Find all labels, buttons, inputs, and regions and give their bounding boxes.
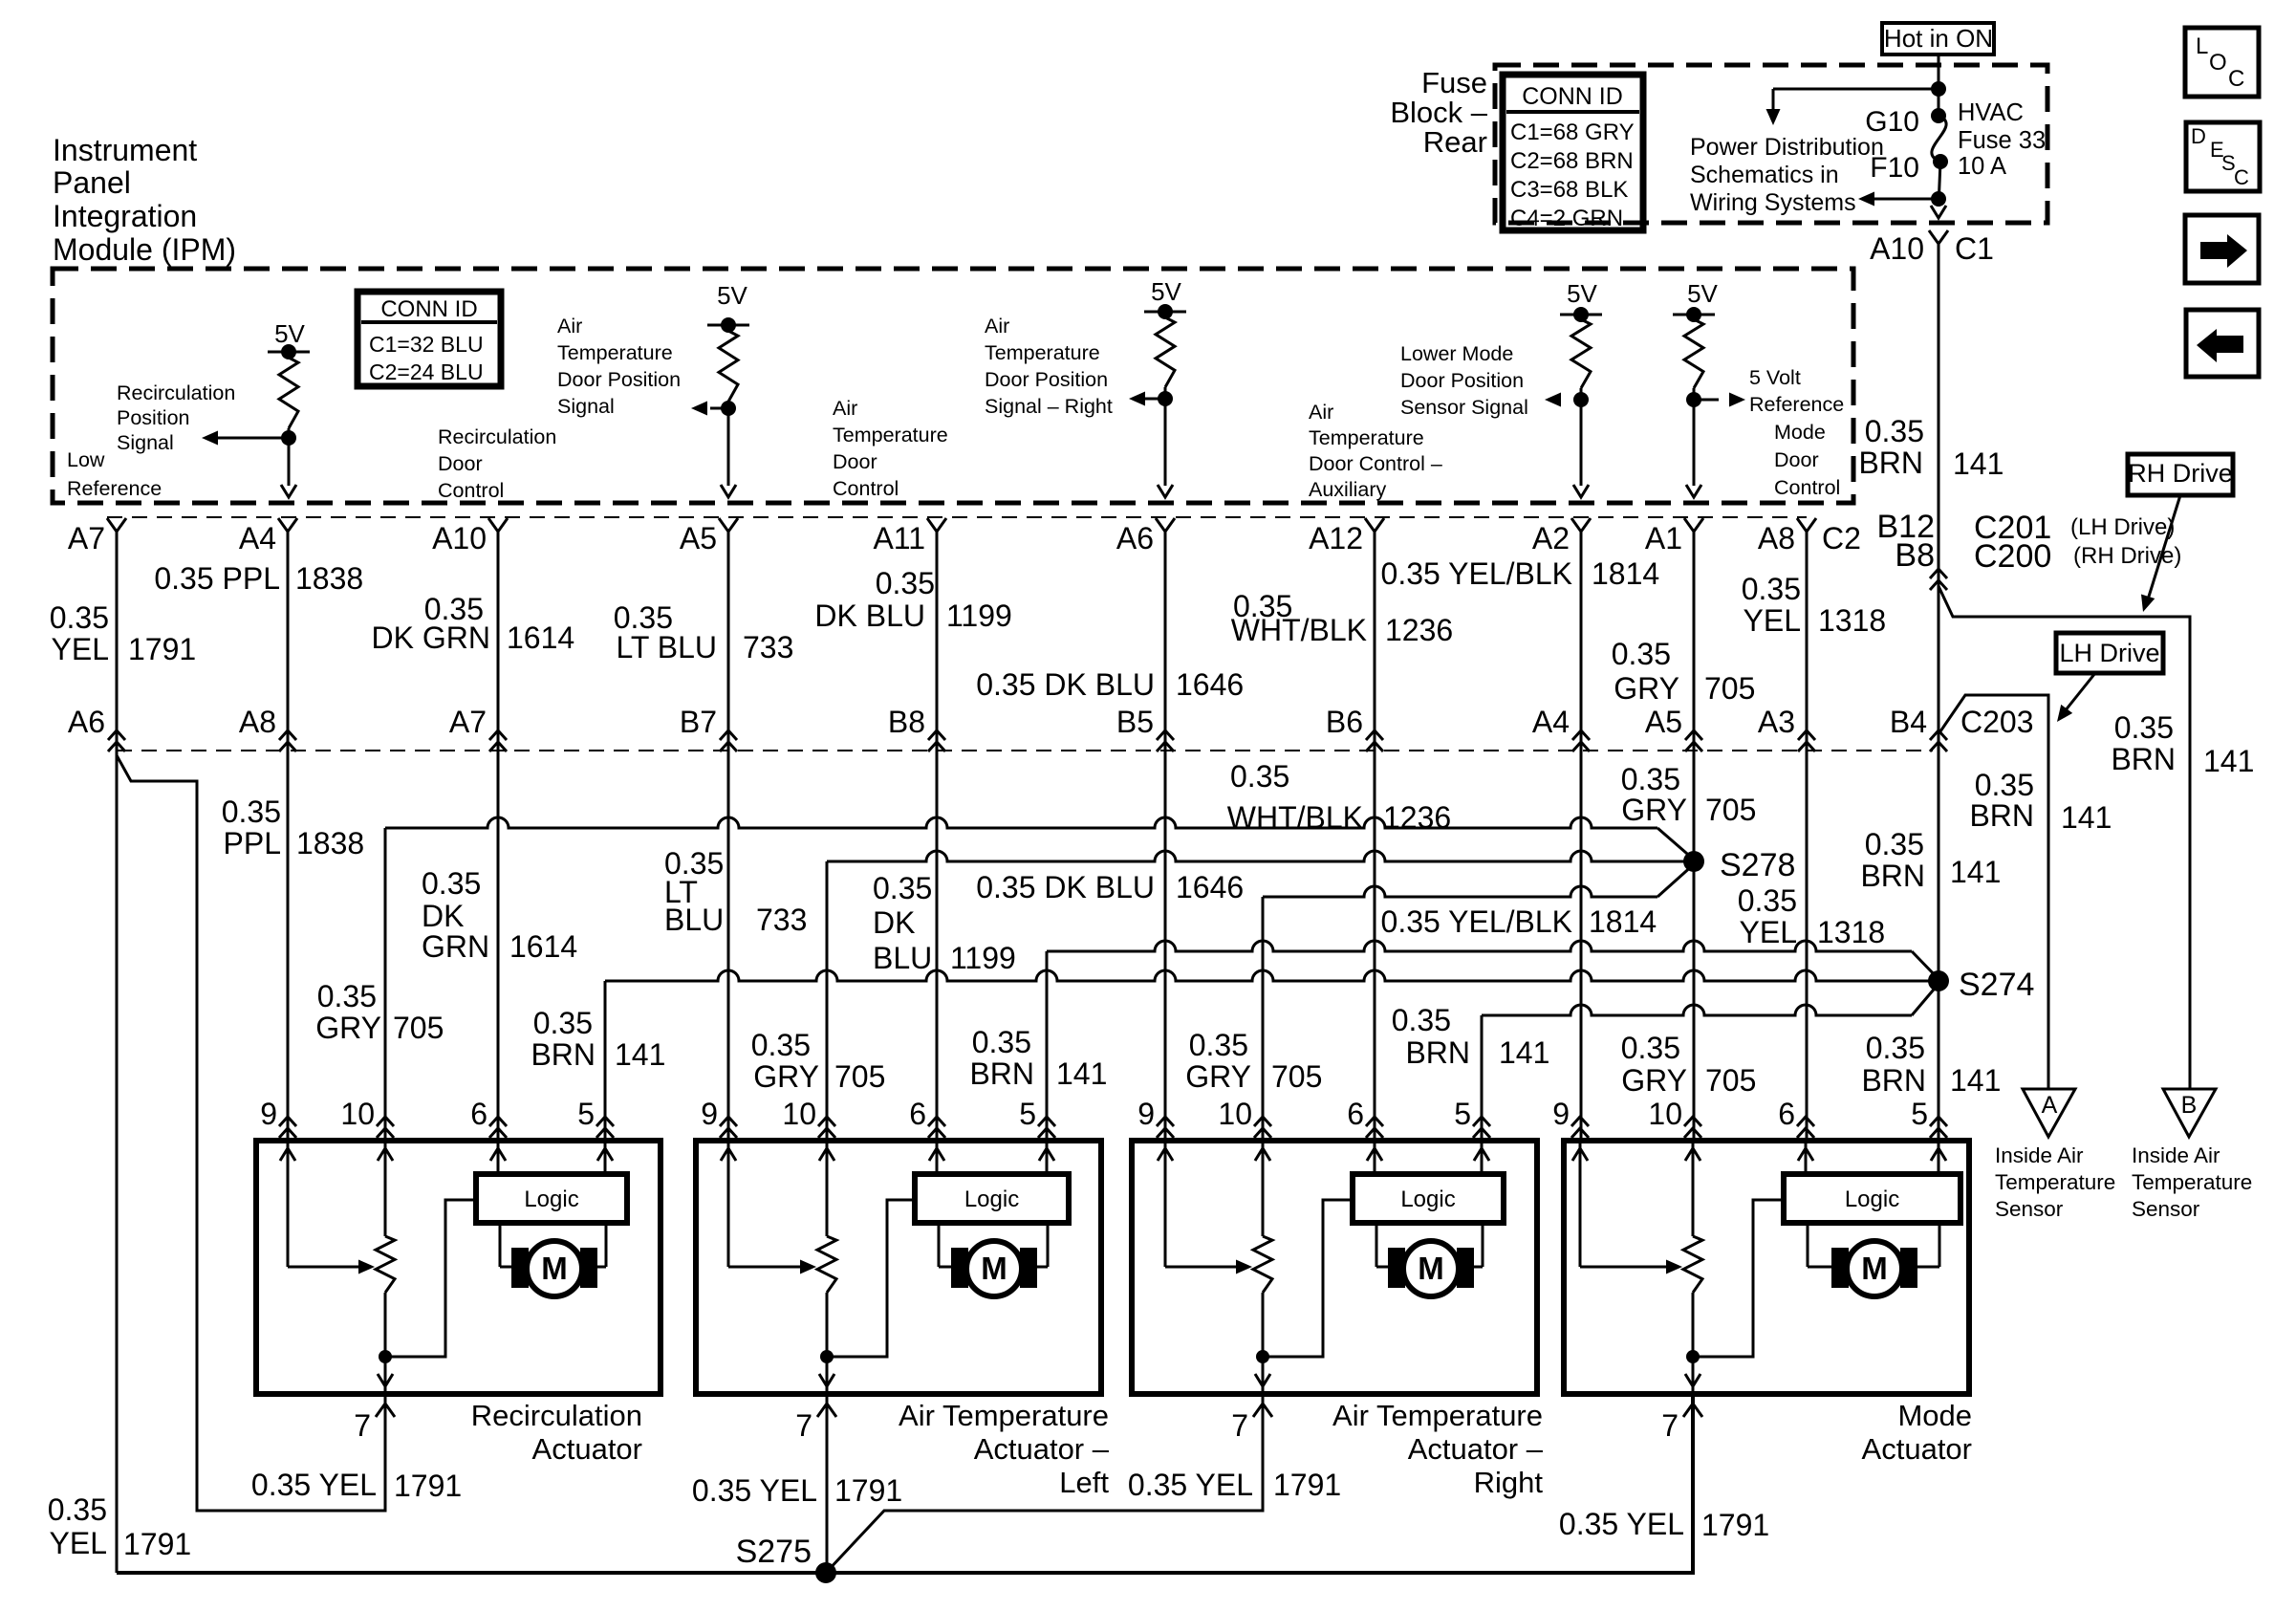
- splice S274: [1928, 970, 1949, 991]
- svg-text:Air Temperature: Air Temperature: [1332, 1399, 1543, 1432]
- branch arrow to Power Distribution: [1773, 88, 1939, 91]
- svg-text:A11: A11: [873, 521, 925, 555]
- svg-text:Rear: Rear: [1423, 125, 1487, 159]
- svg-text:A5: A5: [680, 521, 717, 555]
- svg-text:C200: C200: [1974, 538, 2051, 575]
- connector crossing pin 9: [279, 1117, 296, 1138]
- wire BRN 141 feeder to box3 pin5: [1482, 1005, 1912, 1015]
- svg-text:7: 7: [1661, 1408, 1679, 1443]
- svg-text:Door Position: Door Position: [557, 368, 681, 391]
- wire: battery feed from Hot in ON: [1938, 54, 1940, 116]
- svg-text:Signal – Right: Signal – Right: [985, 395, 1113, 418]
- svg-text:Mode: Mode: [1774, 421, 1826, 444]
- svg-text:BRN: BRN: [2111, 742, 2176, 776]
- signal arrow A5 air temp door position: [710, 407, 728, 410]
- connector dashed line top: [107, 516, 1807, 518]
- svg-text:DK BLU: DK BLU: [814, 599, 925, 633]
- svg-text:Sensor Signal: Sensor Signal: [1400, 396, 1528, 419]
- svg-text:C2=68 BRN: C2=68 BRN: [1510, 148, 1634, 174]
- Fuse Block dashed box: [1495, 65, 2047, 223]
- LOC box: [2185, 28, 2259, 97]
- svg-text:1646: 1646: [1176, 870, 1244, 904]
- svg-text:Temperature: Temperature: [833, 424, 948, 446]
- svg-text:Block –: Block –: [1390, 96, 1487, 129]
- svg-text:Temperature: Temperature: [985, 341, 1100, 364]
- svg-text:1791: 1791: [128, 632, 196, 666]
- logic block Air Temperature Actuator - Left: [915, 1174, 1069, 1223]
- svg-text:G10: G10: [1865, 106, 1919, 138]
- svg-text:6: 6: [1778, 1097, 1795, 1131]
- svg-text:Module (IPM): Module (IPM): [53, 232, 236, 267]
- svg-text:A10: A10: [432, 521, 487, 555]
- svg-text:705: 705: [393, 1011, 444, 1045]
- motor M Air Temperature Actuator - Left: [938, 1223, 941, 1267]
- connector crossing pin 5: [1038, 1117, 1055, 1138]
- wire GRY 705 drop to recirculation pin 10: [384, 828, 387, 1141]
- off-page triangle A: [2023, 1089, 2075, 1137]
- wire 0.35 YEL/BLK 1814: [1580, 532, 1583, 1141]
- RH Drive flag: [2128, 454, 2233, 495]
- svg-text:1614: 1614: [507, 620, 574, 655]
- svg-text:B5: B5: [1116, 705, 1154, 739]
- svg-text:BRN: BRN: [969, 1056, 1034, 1091]
- svg-text:YEL: YEL: [50, 1526, 107, 1560]
- svg-text:141: 141: [1950, 855, 2001, 889]
- wiper feed from pin 9 Air Temperature Actuator - Left: [727, 1141, 730, 1267]
- svg-text:S274: S274: [1959, 967, 2034, 1003]
- svg-text:7: 7: [795, 1408, 812, 1443]
- svg-text:Temperature: Temperature: [1995, 1170, 2115, 1194]
- collar A12: [1365, 518, 1384, 532]
- svg-text:1318: 1318: [1817, 915, 1885, 949]
- svg-text:0.35: 0.35: [48, 1492, 107, 1527]
- svg-text:Logic: Logic: [964, 1186, 1019, 1212]
- connector crossing pin 9: [1157, 1117, 1174, 1138]
- svg-text:705: 705: [1704, 671, 1755, 706]
- splice S278: [1683, 851, 1704, 872]
- connector crossing A5: [1685, 730, 1702, 751]
- svg-text:(LH Drive): (LH Drive): [2070, 514, 2175, 540]
- svg-text:0.35: 0.35: [876, 566, 935, 600]
- svg-text:C203: C203: [1960, 705, 2034, 739]
- wire A6 branch to recirculation pin 7 (0.35 YEL 1791): [117, 755, 385, 1511]
- wire 0.35 LT BLU 733: [727, 532, 730, 1141]
- svg-text:CONN ID: CONN ID: [1522, 83, 1623, 110]
- connector crossing A3: [1798, 730, 1815, 751]
- connector crossing pin 9: [1571, 1117, 1589, 1138]
- signal arrow A1 5 volt reference: [1694, 399, 1719, 402]
- wiper feed from pin 9 Recirculation Actuator: [287, 1141, 290, 1267]
- svg-text:1199: 1199: [950, 941, 1016, 975]
- svg-text:0.35: 0.35: [972, 1025, 1031, 1059]
- svg-text:0.35 YEL: 0.35 YEL: [1559, 1507, 1684, 1541]
- svg-text:A2: A2: [1532, 521, 1570, 555]
- svg-text:Actuator: Actuator: [532, 1432, 642, 1466]
- svg-text:Signal: Signal: [117, 431, 174, 454]
- svg-text:A6: A6: [68, 705, 105, 739]
- svg-text:0.35: 0.35: [751, 1028, 811, 1062]
- svg-text:0.35: 0.35: [317, 979, 377, 1013]
- svg-text:1791: 1791: [394, 1469, 462, 1503]
- svg-text:0.35: 0.35: [1865, 414, 1924, 448]
- connector crossing A8: [279, 730, 296, 751]
- svg-text:5: 5: [1911, 1097, 1928, 1131]
- svg-text:A4: A4: [1532, 705, 1570, 739]
- collar A5: [719, 518, 738, 532]
- svg-text:0.35 YEL/BLK: 0.35 YEL/BLK: [1381, 556, 1572, 591]
- svg-text:WHT/BLK: WHT/BLK: [1231, 613, 1367, 647]
- pin 7 exit Mode Actuator: [1683, 1404, 1702, 1417]
- connector crossing A6: [108, 730, 125, 751]
- connector crossing B6: [1366, 730, 1383, 751]
- internal arrow: [819, 1148, 834, 1161]
- svg-text:0.35: 0.35: [873, 871, 932, 905]
- svg-text:B8: B8: [888, 705, 925, 739]
- wire BRN 141 feeder to box2 pin5: [1047, 941, 1912, 951]
- svg-text:Schematics in: Schematics in: [1690, 162, 1839, 188]
- wire air temp left pin 7 to S275: [826, 1394, 829, 1573]
- wiper junction: [1686, 1350, 1700, 1363]
- pin 7 exit Air Temperature Actuator - Right: [1253, 1404, 1272, 1417]
- svg-text:141: 141: [615, 1037, 665, 1072]
- svg-text:Control: Control: [438, 479, 504, 502]
- wiper feed from pin 9 Mode Actuator: [1579, 1141, 1582, 1267]
- svg-text:9: 9: [1137, 1097, 1155, 1131]
- svg-text:5V: 5V: [717, 281, 747, 310]
- svg-text:O: O: [2209, 50, 2227, 76]
- svg-text:1791: 1791: [834, 1473, 902, 1508]
- svg-text:5: 5: [1019, 1097, 1036, 1131]
- connector crossing pin 6: [928, 1117, 945, 1138]
- svg-text:Reference: Reference: [1749, 393, 1844, 416]
- svg-text:5V: 5V: [1567, 279, 1597, 308]
- svg-text:5 Volt: 5 Volt: [1749, 366, 1801, 389]
- svg-text:Air: Air: [833, 397, 857, 420]
- svg-text:S275: S275: [736, 1534, 812, 1570]
- svg-text:5: 5: [1454, 1097, 1471, 1131]
- svg-text:1236: 1236: [1383, 800, 1451, 835]
- svg-text:A1: A1: [1645, 521, 1682, 555]
- svg-text:10: 10: [782, 1097, 816, 1131]
- svg-text:Air: Air: [1309, 401, 1333, 424]
- svg-text:LH Drive: LH Drive: [2059, 639, 2159, 667]
- svg-text:705: 705: [1271, 1059, 1322, 1094]
- svg-text:0.35 YEL/BLK: 0.35 YEL/BLK: [1381, 904, 1572, 939]
- svg-text:C1=68 GRY: C1=68 GRY: [1510, 120, 1635, 145]
- svg-text:0.35 YEL: 0.35 YEL: [1128, 1468, 1253, 1502]
- potentiometer (position feedback) Mode Actuator: [1692, 1141, 1695, 1236]
- svg-text:GRY: GRY: [1185, 1059, 1251, 1094]
- connector crossing pin 5: [1930, 1117, 1947, 1138]
- svg-text:1236: 1236: [1385, 613, 1453, 647]
- svg-text:0.35: 0.35: [1392, 1003, 1451, 1037]
- svg-text:Door: Door: [1774, 448, 1819, 471]
- svg-text:F10: F10: [1870, 152, 1919, 184]
- svg-text:PPL: PPL: [224, 826, 281, 860]
- internal arrow: [1158, 1148, 1173, 1161]
- pin 7 exit Air Temperature Actuator - Left: [817, 1404, 836, 1417]
- svg-text:C2: C2: [1822, 521, 1861, 555]
- wiper junction: [379, 1350, 392, 1363]
- svg-text:Air: Air: [985, 315, 1009, 337]
- IPM dashed box: [53, 269, 1853, 503]
- junction on battery feed: [1931, 81, 1946, 97]
- svg-text:Hot in ON: Hot in ON: [1884, 24, 1993, 53]
- svg-text:10: 10: [1218, 1097, 1252, 1131]
- svg-text:10 A: 10 A: [1958, 153, 2006, 180]
- svg-text:0.35: 0.35: [422, 866, 481, 901]
- connector crossing pin 10: [377, 1117, 394, 1138]
- svg-text:Temperature: Temperature: [1309, 426, 1424, 449]
- internal arrow: [1255, 1148, 1270, 1161]
- svg-text:733: 733: [756, 903, 807, 937]
- svg-text:Left: Left: [1059, 1466, 1109, 1499]
- svg-text:0.35 YEL: 0.35 YEL: [251, 1468, 377, 1502]
- actuator box: Air Temperature Actuator - Left: [696, 1141, 1101, 1394]
- svg-text:CONN ID: CONN ID: [380, 296, 477, 322]
- svg-text:1838: 1838: [296, 826, 364, 860]
- actuator box: Recirculation Actuator: [256, 1141, 661, 1394]
- wire 0.35 DK GRN 1614: [497, 532, 500, 1141]
- wiper sense to logic Air Temperature Actuator - Left: [827, 1200, 915, 1357]
- wire branch C203 LH drive to inside air temp sensor A: [1940, 695, 2048, 1089]
- svg-text:5: 5: [577, 1097, 595, 1131]
- svg-text:Temperature: Temperature: [2132, 1170, 2252, 1194]
- wire GRY 705 feeder to box3 pin10: [1263, 886, 1657, 897]
- wire GRY 705 drop to air temp left pin 10: [826, 861, 829, 1141]
- svg-text:0.35: 0.35: [1742, 572, 1801, 606]
- svg-text:GRY: GRY: [1621, 793, 1687, 827]
- wiper junction: [820, 1350, 834, 1363]
- signal arrow A2 lower mode door position: [1575, 399, 1581, 402]
- svg-text:0.35: 0.35: [533, 1006, 593, 1040]
- svg-text:7: 7: [354, 1408, 371, 1443]
- svg-text:A8: A8: [239, 705, 276, 739]
- internal arrow: [929, 1148, 944, 1161]
- internal arrow: [1685, 1148, 1700, 1161]
- connector crossing B4/C203: [1930, 730, 1947, 751]
- svg-text:BRN: BRN: [1405, 1035, 1470, 1070]
- previous-page arrow box: [2186, 310, 2259, 377]
- svg-text:0.35 DK BLU: 0.35 DK BLU: [976, 870, 1155, 904]
- svg-text:Sensor: Sensor: [2132, 1197, 2200, 1221]
- connector dashed line bottom: [117, 750, 1933, 751]
- wire 0.35 BRN 141 from fuse to IPM: [1938, 244, 1940, 517]
- wiper sense to logic Recirculation Actuator: [385, 1200, 476, 1357]
- wire below fuse with arrow to Wiring Systems: [1939, 162, 1940, 207]
- logic block Air Temperature Actuator - Right: [1353, 1174, 1504, 1223]
- internal arrow: [1039, 1148, 1054, 1161]
- connector crossing pin 5: [596, 1117, 614, 1138]
- svg-text:1646: 1646: [1176, 667, 1244, 702]
- collar A1: [1684, 518, 1703, 532]
- internal arrow: [490, 1148, 506, 1161]
- svg-text:LT BLU: LT BLU: [616, 630, 717, 664]
- svg-text:Right: Right: [1474, 1466, 1544, 1499]
- svg-text:DK GRN: DK GRN: [372, 620, 490, 655]
- internal arrow: [1572, 1148, 1588, 1161]
- svg-text:9: 9: [1552, 1097, 1570, 1131]
- svg-text:Lower Mode: Lower Mode: [1400, 342, 1513, 365]
- svg-text:Fuse 33: Fuse 33: [1958, 127, 2046, 154]
- svg-text:Door Control –: Door Control –: [1309, 452, 1442, 475]
- logic block Mode Actuator: [1784, 1174, 1960, 1223]
- svg-text:5V: 5V: [274, 319, 305, 348]
- svg-text:M: M: [981, 1251, 1007, 1286]
- internal arrow: [597, 1148, 613, 1161]
- signal arrow A4 recirc position: [217, 437, 289, 440]
- svg-text:A5: A5: [1645, 705, 1682, 739]
- svg-text:10: 10: [340, 1097, 375, 1131]
- wire 0.35 YEL 1318: [1806, 532, 1809, 1141]
- svg-text:Door Position: Door Position: [1400, 369, 1524, 392]
- wiper sense to logic Mode Actuator: [1693, 1200, 1784, 1357]
- svg-text:GRY: GRY: [315, 1011, 381, 1045]
- connector crossing pin 5: [1473, 1117, 1490, 1138]
- svg-text:C: C: [2228, 66, 2244, 92]
- collar A7: [107, 518, 126, 532]
- svg-text:141: 141: [1499, 1035, 1549, 1070]
- svg-text:Mode: Mode: [1897, 1399, 1972, 1432]
- pin 7 exit Recirculation Actuator: [376, 1404, 395, 1417]
- actuator box: Air Temperature Actuator - Right: [1132, 1141, 1537, 1394]
- CONN ID table (fuse block): [1503, 75, 1643, 230]
- signal arrow A6 air temp door position right: [1144, 398, 1165, 401]
- wire GRY 705 feeder to box1 pin10: [385, 817, 1657, 828]
- LH Drive flag: [2056, 633, 2163, 673]
- actuator box: Mode Actuator: [1564, 1141, 1969, 1394]
- svg-text:BRN: BRN: [1969, 798, 2034, 833]
- svg-text:9: 9: [260, 1097, 277, 1131]
- svg-text:A10: A10: [1870, 231, 1924, 266]
- svg-text:B6: B6: [1326, 705, 1363, 739]
- svg-text:141: 141: [1056, 1056, 1107, 1091]
- wire GRY 705 feeder to box2 pin10: [827, 851, 1685, 861]
- svg-text:705: 705: [1705, 793, 1756, 827]
- svg-text:0.35: 0.35: [1621, 1031, 1680, 1065]
- svg-text:Recirculation: Recirculation: [471, 1399, 642, 1432]
- motor M Mode Actuator: [1807, 1223, 1809, 1267]
- svg-text:1814: 1814: [1589, 904, 1657, 939]
- svg-text:5V: 5V: [1151, 277, 1181, 306]
- svg-text:0.35: 0.35: [1865, 827, 1924, 861]
- wire 0.35 DK BLU 1646: [1164, 532, 1167, 1141]
- svg-text:GRY: GRY: [753, 1059, 819, 1094]
- svg-text:YEL: YEL: [1740, 915, 1797, 949]
- svg-text:Door: Door: [438, 452, 483, 475]
- bottom rail 0.35 YEL 1791: [117, 1394, 1693, 1573]
- Hot in ON box: [1882, 23, 1994, 54]
- svg-text:DK: DK: [873, 905, 915, 940]
- svg-text:YEL: YEL: [52, 632, 109, 666]
- collar A8: [1797, 518, 1816, 532]
- motor M Recirculation Actuator: [499, 1223, 502, 1267]
- connector crossing B8: [1930, 569, 1947, 590]
- svg-text:0.35 PPL: 0.35 PPL: [154, 561, 280, 596]
- svg-text:BRN: BRN: [1858, 446, 1923, 480]
- svg-text:1838: 1838: [295, 561, 363, 596]
- motor M Air Temperature Actuator - Right: [1375, 1223, 1378, 1267]
- svg-text:705: 705: [1705, 1063, 1756, 1098]
- svg-text:Wiring Systems: Wiring Systems: [1690, 189, 1856, 216]
- svg-text:5V: 5V: [1687, 279, 1718, 308]
- connector crossing pin 10: [1254, 1117, 1271, 1138]
- wire BRN 141 feeder to box1 pin5: [605, 970, 1939, 981]
- internal arrow: [1367, 1148, 1382, 1161]
- svg-text:Auxiliary: Auxiliary: [1309, 478, 1386, 501]
- off-page triangle B: [2163, 1089, 2216, 1137]
- svg-text:0.35: 0.35: [50, 600, 109, 635]
- svg-text:0.35: 0.35: [222, 795, 281, 829]
- svg-text:1791: 1791: [123, 1527, 191, 1561]
- potentiometer (position feedback) Recirculation Actuator: [384, 1141, 387, 1236]
- wire BRN 141 drop to air temp left pin 5: [1046, 951, 1049, 1141]
- wiper sense to logic Air Temperature Actuator - Right: [1263, 1200, 1353, 1357]
- svg-text:733: 733: [743, 630, 793, 664]
- svg-text:Low: Low: [67, 448, 105, 471]
- connector crossing B5: [1157, 730, 1174, 751]
- svg-text:A: A: [2042, 1092, 2058, 1119]
- collar A6: [1156, 518, 1175, 532]
- wire 0.35 DK BLU 1199: [936, 532, 939, 1141]
- svg-text:Reference: Reference: [67, 477, 162, 500]
- svg-text:141: 141: [2203, 744, 2254, 778]
- svg-text:Fuse: Fuse: [1421, 66, 1487, 99]
- svg-text:Position: Position: [117, 406, 190, 429]
- svg-text:0.35: 0.35: [2114, 710, 2174, 745]
- svg-text:C2=24 BLU: C2=24 BLU: [369, 359, 484, 384]
- svg-text:BRN: BRN: [1861, 1063, 1926, 1098]
- svg-text:Inside Air: Inside Air: [2132, 1143, 2220, 1167]
- svg-text:0.35: 0.35: [1230, 759, 1289, 794]
- svg-text:1814: 1814: [1592, 556, 1659, 591]
- svg-text:Air Temperature: Air Temperature: [899, 1399, 1109, 1432]
- svg-text:Temperature: Temperature: [557, 341, 673, 364]
- svg-text:Signal: Signal: [557, 395, 615, 418]
- svg-text:M: M: [541, 1251, 568, 1286]
- svg-text:BLU: BLU: [873, 941, 932, 975]
- svg-text:M: M: [1418, 1251, 1444, 1286]
- connector crossing A7: [489, 730, 507, 751]
- wire S275 to air temp right pin 7: [826, 1394, 1263, 1573]
- svg-text:D: D: [2191, 124, 2206, 148]
- logic block Recirculation Actuator: [476, 1174, 627, 1223]
- wiper junction: [1256, 1350, 1269, 1363]
- DESC box: [2186, 122, 2260, 191]
- internal arrow: [1474, 1148, 1489, 1161]
- connector collar A10/C1: [1929, 230, 1948, 244]
- main wire through C201/C200: [1938, 517, 1940, 1141]
- svg-text:Door: Door: [833, 450, 877, 473]
- svg-text:0.35: 0.35: [1189, 1028, 1248, 1062]
- connector crossing pin 10: [1684, 1117, 1701, 1138]
- svg-text:C: C: [2234, 165, 2249, 189]
- svg-text:Recirculation: Recirculation: [117, 381, 235, 404]
- connector crossing pin 6: [1366, 1117, 1383, 1138]
- svg-text:GRY: GRY: [1614, 671, 1679, 706]
- svg-text:A7: A7: [68, 521, 105, 555]
- connector crossing pin 9: [720, 1117, 737, 1138]
- svg-text:0.35 DK BLU: 0.35 DK BLU: [976, 667, 1155, 702]
- svg-text:Control: Control: [1774, 476, 1840, 499]
- svg-text:C3=68 BLK: C3=68 BLK: [1510, 177, 1628, 203]
- svg-text:GRY: GRY: [1621, 1063, 1687, 1098]
- next-page arrow box: [2185, 215, 2259, 283]
- connector crossing B7: [720, 730, 737, 751]
- svg-text:B: B: [2181, 1092, 2198, 1119]
- wire BRN 141 drop to recirculation pin 5: [604, 981, 607, 1141]
- svg-text:A6: A6: [1116, 521, 1154, 555]
